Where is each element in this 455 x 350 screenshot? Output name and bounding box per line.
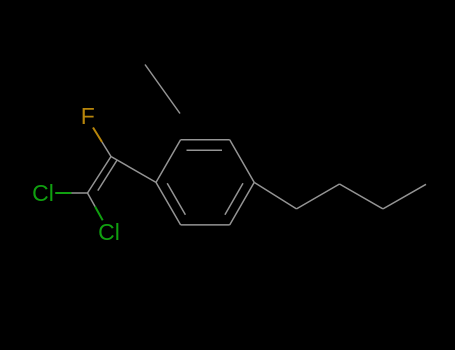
bond C2-Cl1 gray half [72,192,88,194]
svg-text:Cl: Cl [98,219,120,245]
double bond C1=C2 line 2 [98,160,117,191]
benzene ring [156,140,254,225]
svg-text:Cl: Cl [32,180,54,206]
edge TR-R [230,140,255,183]
inner line BL-A [167,183,185,215]
edge BR-BL [181,224,230,226]
bond F-C1 (gray half) [102,142,111,157]
bond R-X1 [254,182,296,209]
bond C2-Cl2 green half [95,207,103,221]
chain from ring [145,65,426,209]
edge R-BR [230,182,255,225]
bond X2-X3 [340,184,384,209]
svg-text:F: F [81,103,95,129]
bond F-C1 (olive half) [93,128,102,143]
edge TL-TR [181,139,230,141]
bond C2-Cl1 green half [55,192,71,194]
bond X3-X4 [383,184,426,209]
bond C2-Cl2 gray half [88,193,96,207]
edge A-TL [156,140,181,183]
inner line TL-TR [187,149,223,151]
bond C1-ring [111,157,156,183]
floating diagonal [145,65,180,114]
inner line R-BR [225,183,243,215]
bond X1-X2 [297,184,340,209]
edge BL-A [156,182,181,225]
double bond C1=C2 line 1 [88,157,112,194]
